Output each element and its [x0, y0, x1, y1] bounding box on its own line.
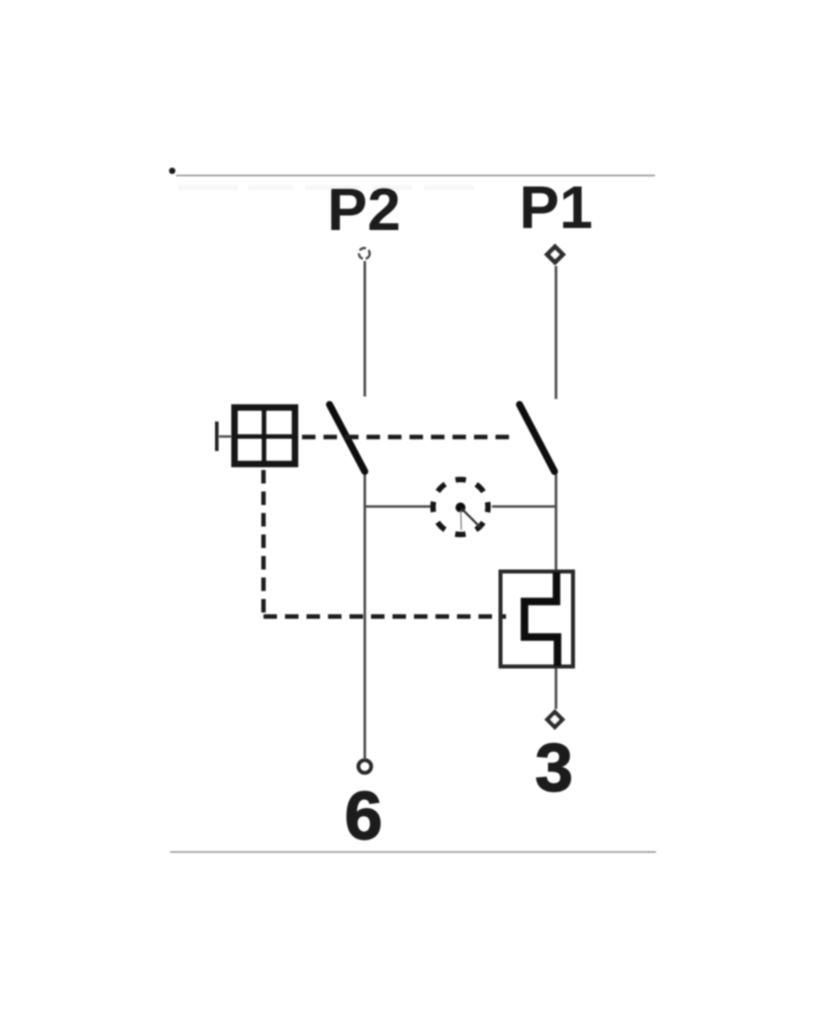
svg-text:6: 6: [345, 778, 383, 854]
svg-text:P1: P1: [519, 174, 592, 241]
svg-text:3: 3: [535, 730, 573, 806]
svg-text:P2: P2: [327, 176, 400, 243]
